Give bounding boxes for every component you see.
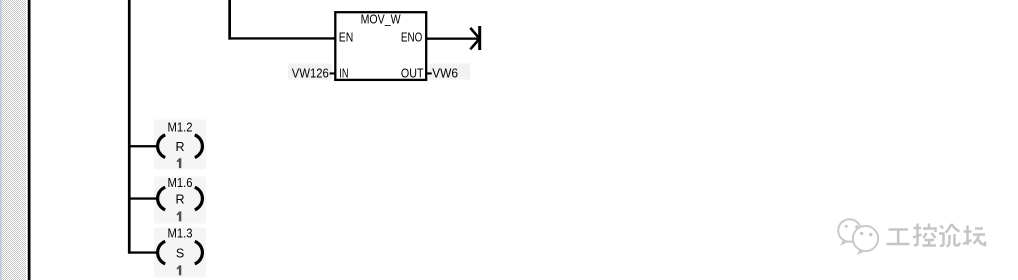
gray halo behind coil 1 [154,120,206,170]
控 [914,227,922,230]
wire: stub to coil 2 [129,197,157,199]
coil 3 S (M1.3) [158,241,166,264]
svg-text:OUT: OUT [401,67,424,81]
wire: ENO output [427,38,478,40]
coil 2 R (M1.6) [158,187,166,210]
wire: stub to coil 3 [129,251,157,253]
gray halo behind coil 3 [154,228,206,278]
论 [941,226,944,229]
wire: drop from top to EN level [228,0,231,40]
arrow: continuation chevron [470,28,479,49]
box U1 MOV_W [335,12,426,80]
svg-text:EN: EN [339,31,354,45]
value 1 (coil 3) [176,265,181,275]
coil 1 R (M1.2) [158,135,166,158]
gray halo behind MOV_W title [353,14,408,25]
工 [889,228,909,231]
wire: horizontal into EN [228,37,336,39]
stub OUT to VW6 [427,72,432,74]
svg-text:MOV_W: MOV_W [361,12,401,26]
wire: stub to coil 1 [129,145,157,147]
arrow: end bar [478,26,481,50]
svg-text:M1.6: M1.6 [168,176,193,190]
left power rail [28,0,31,280]
gray halo behind VW6 [429,64,470,80]
svg-text:IN: IN [339,67,348,81]
svg-text:S: S [176,246,184,260]
left window gutter (hatched strip) [0,0,26,280]
svg-text:R: R [175,140,184,154]
svg-text:VW6: VW6 [432,67,458,81]
branch rail (junction bus for coils) [128,0,131,254]
gray halo behind VW126 [288,64,332,80]
svg-text:VW126: VW126 [292,67,329,81]
坛 [964,230,972,233]
gray halo behind coil 2 [154,177,206,224]
value 1 (coil 1) [176,158,181,168]
value 1 (coil 2) [176,211,181,221]
svg-text:ENO: ENO [401,31,423,45]
watermark logo (chat bubbles) [838,219,878,255]
svg-text:M1.2: M1.2 [168,120,193,134]
svg-text:R: R [175,192,184,206]
svg-text:M1.3: M1.3 [168,226,193,240]
watermark text 工控论坛 (drawn strokes) [887,224,986,247]
stub VW126 to IN [330,72,336,74]
